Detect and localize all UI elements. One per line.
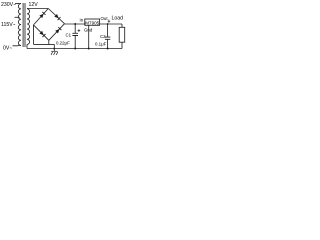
transformer T1 core [23,3,25,47]
svg-text:115V~: 115V~ [1,22,16,28]
wire bridge left corner drop [33,25,35,45]
diode D4 arrow [55,29,59,33]
transformer T1 secondary winding [27,9,30,45]
junction node C2 bottom [107,48,109,50]
wire regulator out rail [100,23,122,25]
svg-text:Load: Load [112,16,124,22]
wire secondary top to bridge [27,8,48,10]
output polarity + [108,20,111,23]
svg-text:M7905: M7905 [85,21,99,26]
svg-text:230V~: 230V~ [1,2,16,8]
capacitor C2 0.1uF [107,24,109,37]
wire bottom rail [27,48,122,50]
svg-text:0.1μF: 0.1μF [95,42,107,47]
wire 115V tap lead [15,16,20,18]
wire mid ground line [34,43,55,45]
svg-text:12V: 12V [29,2,39,8]
junction node ground [53,48,55,50]
transformer T1 primary winding [18,4,21,46]
C1 polarity + [78,29,81,32]
ground stem [53,44,55,51]
svg-text:0V~: 0V~ [3,46,12,52]
diode D2 arrow [54,14,58,18]
svg-text:0.22μF: 0.22μF [56,41,70,46]
junction node gnd pin [88,48,90,50]
resistor R load [119,27,125,42]
svg-text:C1: C1 [66,32,72,37]
diode bridge D3 bottom-left edge [34,25,49,40]
regulator U1 box [85,19,100,25]
svg-text:In: In [80,18,84,23]
wire load top [121,24,123,27]
svg-text:Out: Out [101,16,109,21]
junction node C1 top [74,23,76,25]
wire regulator gnd pin [88,25,90,48]
diode D1 arrow [39,14,43,18]
junction node C1 bottom [74,48,76,50]
diode bridge D2 top-right edge [48,9,64,24]
wire bridge right corner to regulator [65,23,85,25]
wire 230V lead [15,3,20,5]
junction node C2 top [107,23,109,25]
wire bridge bottom stub [48,40,50,44]
diode bridge D4 bottom-right edge [49,24,65,41]
wire load bottom [121,42,123,48]
diode bridge D1 top-left edge [34,9,49,25]
wire secondary bottom lead [26,44,28,48]
svg-text:C2: C2 [100,34,106,39]
ground symbol [51,50,58,52]
capacitor C1 0.22uF [74,24,76,33]
wire 0V lead [13,45,20,46]
diode D3 arrow [39,31,43,35]
